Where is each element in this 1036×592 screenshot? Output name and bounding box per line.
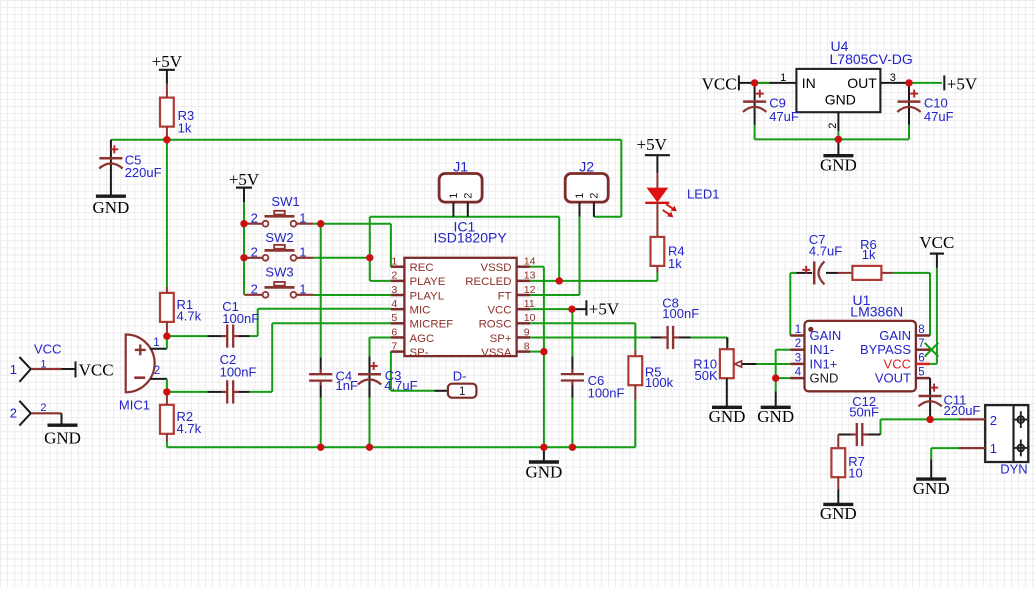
svg-text:50nF: 50nF xyxy=(849,405,879,420)
svg-text:J1: J1 xyxy=(453,158,468,174)
svg-text:10: 10 xyxy=(524,312,536,324)
svg-text:D-: D- xyxy=(453,368,467,383)
svg-text:VCC: VCC xyxy=(79,360,114,379)
svg-text:PLAYL: PLAYL xyxy=(410,290,445,302)
svg-text:GND: GND xyxy=(92,198,129,217)
svg-text:SP+: SP+ xyxy=(490,333,512,345)
svg-text:2: 2 xyxy=(827,123,839,129)
svg-text:GND: GND xyxy=(709,407,746,426)
svg-text:GND: GND xyxy=(757,407,794,426)
svg-text:GAIN: GAIN xyxy=(810,328,842,343)
svg-text:1: 1 xyxy=(299,211,306,226)
svg-text:AGC: AGC xyxy=(410,333,435,345)
svg-text:9: 9 xyxy=(524,326,530,338)
svg-text:ROSC: ROSC xyxy=(479,319,512,331)
svg-text:VSSD: VSSD xyxy=(480,262,511,274)
svg-text:GND: GND xyxy=(810,371,839,386)
svg-text:1: 1 xyxy=(574,193,586,199)
svg-text:J2: J2 xyxy=(579,158,594,174)
svg-text:RECLED: RECLED xyxy=(465,276,511,288)
svg-text:OUT: OUT xyxy=(847,75,877,91)
svg-text:6: 6 xyxy=(391,326,397,338)
svg-text:1: 1 xyxy=(780,72,786,84)
svg-text:47uF: 47uF xyxy=(769,109,799,124)
svg-text:FT: FT xyxy=(498,290,512,302)
svg-text:100nF: 100nF xyxy=(662,306,699,321)
svg-text:BYPASS: BYPASS xyxy=(860,342,911,357)
svg-text:DYN: DYN xyxy=(1000,462,1027,477)
svg-text:1: 1 xyxy=(795,324,801,336)
svg-text:1: 1 xyxy=(153,337,159,349)
svg-text:2: 2 xyxy=(251,245,258,260)
svg-text:GND: GND xyxy=(913,479,950,498)
svg-text:8: 8 xyxy=(918,324,924,336)
svg-text:4.7k: 4.7k xyxy=(177,309,202,324)
svg-text:7: 7 xyxy=(918,338,924,350)
svg-text:2: 2 xyxy=(251,282,258,297)
svg-text:+5V: +5V xyxy=(152,52,183,71)
svg-text:5: 5 xyxy=(918,367,924,379)
svg-text:2: 2 xyxy=(154,365,160,377)
svg-text:LM386N: LM386N xyxy=(850,303,903,319)
svg-text:12: 12 xyxy=(524,284,536,296)
svg-text:220uF: 220uF xyxy=(125,165,162,180)
svg-text:+5V: +5V xyxy=(947,75,978,94)
svg-text:50K: 50K xyxy=(695,368,718,383)
svg-text:4.7uF: 4.7uF xyxy=(384,378,417,393)
svg-text:7: 7 xyxy=(391,340,397,352)
svg-text:VOUT: VOUT xyxy=(875,371,911,386)
svg-text:VCC: VCC xyxy=(919,233,954,252)
svg-text:8: 8 xyxy=(524,340,530,352)
svg-text:100nF: 100nF xyxy=(220,364,257,379)
svg-text:VCC: VCC xyxy=(884,356,911,371)
svg-text:1: 1 xyxy=(990,441,997,456)
svg-text:IN1-: IN1- xyxy=(810,342,835,357)
svg-text:VSSA: VSSA xyxy=(481,347,512,359)
svg-text:2: 2 xyxy=(40,402,46,414)
svg-text:3: 3 xyxy=(890,72,896,84)
svg-text:1: 1 xyxy=(448,193,460,199)
svg-text:100nF: 100nF xyxy=(222,311,259,326)
svg-text:6: 6 xyxy=(918,352,924,364)
svg-text:VCC: VCC xyxy=(34,342,61,357)
svg-text:1k: 1k xyxy=(178,121,192,136)
svg-text:REC: REC xyxy=(410,262,434,274)
svg-text:GND: GND xyxy=(525,463,562,482)
svg-text:ISD1820PY: ISD1820PY xyxy=(434,229,508,245)
svg-text:1: 1 xyxy=(10,362,17,377)
svg-text:5: 5 xyxy=(391,312,397,324)
svg-text:1: 1 xyxy=(40,358,46,370)
svg-text:GND: GND xyxy=(820,504,857,523)
svg-text:LED1: LED1 xyxy=(687,186,720,201)
svg-text:MICREF: MICREF xyxy=(410,319,454,331)
svg-text:11: 11 xyxy=(524,298,535,310)
svg-text:PLAYE: PLAYE xyxy=(410,276,446,288)
svg-text:4.7k: 4.7k xyxy=(177,421,202,436)
svg-text:VCC: VCC xyxy=(702,75,737,94)
svg-text:IN1+: IN1+ xyxy=(810,356,838,371)
svg-text:GAIN: GAIN xyxy=(879,328,911,343)
svg-text:GND: GND xyxy=(825,92,856,108)
svg-text:2: 2 xyxy=(462,193,474,199)
svg-text:+5V: +5V xyxy=(589,300,620,319)
svg-text:4: 4 xyxy=(795,367,802,379)
svg-text:1: 1 xyxy=(459,386,465,398)
svg-text:2: 2 xyxy=(589,193,601,199)
svg-text:1k: 1k xyxy=(668,256,682,271)
svg-text:2: 2 xyxy=(990,413,997,428)
svg-text:2: 2 xyxy=(795,338,801,350)
svg-text:4.7uF: 4.7uF xyxy=(809,244,842,259)
svg-text:2: 2 xyxy=(251,211,258,226)
svg-text:GND: GND xyxy=(820,156,857,175)
svg-text:SP-: SP- xyxy=(410,347,429,359)
svg-text:2: 2 xyxy=(10,406,17,421)
svg-text:1: 1 xyxy=(299,245,306,260)
svg-text:3: 3 xyxy=(391,284,397,296)
svg-text:+5V: +5V xyxy=(637,135,668,154)
svg-text:1: 1 xyxy=(299,282,306,297)
svg-text:13: 13 xyxy=(524,270,536,282)
svg-text:1: 1 xyxy=(391,256,397,268)
svg-text:3: 3 xyxy=(795,352,801,364)
svg-text:100k: 100k xyxy=(645,375,674,390)
svg-text:47uF: 47uF xyxy=(924,109,954,124)
svg-text:L7805CV-DG: L7805CV-DG xyxy=(830,51,913,67)
svg-text:4: 4 xyxy=(391,298,397,310)
svg-text:1nF: 1nF xyxy=(336,378,358,393)
svg-text:GND: GND xyxy=(44,429,81,448)
svg-text:MIC: MIC xyxy=(410,304,431,316)
svg-text:VCC: VCC xyxy=(487,304,511,316)
svg-text:100nF: 100nF xyxy=(588,386,625,401)
svg-text:10: 10 xyxy=(848,466,862,481)
svg-text:MIC1: MIC1 xyxy=(119,397,150,412)
svg-text:SW1: SW1 xyxy=(271,194,299,209)
svg-text:220uF: 220uF xyxy=(944,403,981,418)
svg-text:2: 2 xyxy=(391,270,397,282)
svg-text:SW3: SW3 xyxy=(265,264,293,279)
svg-text:+5V: +5V xyxy=(229,170,260,189)
svg-text:1k: 1k xyxy=(862,247,876,262)
svg-text:SW2: SW2 xyxy=(265,230,293,245)
svg-text:14: 14 xyxy=(524,256,536,268)
svg-text:IN: IN xyxy=(802,75,816,91)
